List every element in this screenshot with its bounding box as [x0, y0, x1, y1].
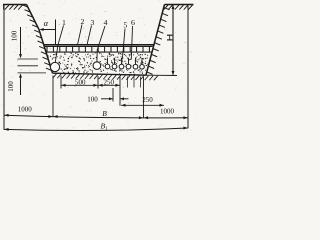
- svg-text:1000: 1000: [18, 105, 33, 113]
- svg-text:250: 250: [103, 78, 114, 86]
- masonry cap layer: [44, 45, 154, 52]
- extension line left toe: [52, 76, 54, 117]
- extension line x61: [60, 76, 62, 89]
- extension line x98: [97, 76, 99, 89]
- dimensions 1000 B 1000: [4, 105, 188, 119]
- stipple fill of bedding layer: [47, 52, 148, 75]
- dimension 250 right: [121, 96, 164, 107]
- pipe circles in bedding: [50, 62, 144, 72]
- ground surface left: [3, 5, 27, 10]
- label 3 with leader: [87, 18, 94, 45]
- hatch ticks under trench bottom: [53, 74, 158, 81]
- dimension 100 lower left: [7, 73, 22, 95]
- right slope line: [146, 5, 165, 75]
- trench bottom line: [53, 73, 178, 75]
- hatch ticks under right ground: [164, 5, 193, 10]
- dimensions 500 and 250 under bedding: [61, 78, 120, 87]
- svg-text:250: 250: [142, 96, 153, 104]
- trench cross-section figure: [0, 0, 196, 136]
- svg-text:4: 4: [104, 18, 108, 27]
- svg-text:500: 500: [75, 78, 86, 86]
- svg-text:100: 100: [87, 96, 98, 104]
- svg-text:α: α: [44, 18, 49, 28]
- alpha slope-angle dimension: [40, 18, 56, 45]
- ground surface right: [165, 4, 194, 6]
- left slope line: [27, 5, 53, 74]
- dimension 100 pipe spacing: [87, 96, 128, 104]
- svg-text:5: 5: [123, 20, 127, 29]
- level extension lines left: [18, 59, 47, 73]
- right extension line: [187, 5, 189, 129]
- label 4 with leader: [97, 18, 108, 61]
- label 6 with leader: [131, 18, 135, 59]
- dimension B1 overall width: [4, 122, 188, 133]
- svg-text:100: 100: [7, 81, 15, 92]
- label 5 with leader: [122, 20, 127, 59]
- dimension 100 upper left: [10, 27, 22, 58]
- dimension H trench depth: [167, 5, 175, 75]
- hatch ticks on right slope: [147, 7, 170, 74]
- label 2 with leader: [78, 17, 85, 45]
- svg-text:B: B: [102, 109, 107, 118]
- hatch ticks under left ground: [5, 5, 23, 10]
- label 1 with leader: [55, 18, 66, 62]
- svg-text:1000: 1000: [160, 108, 175, 116]
- short extension stubs under pipe cluster: [128, 77, 141, 88]
- pipe stems: [108, 58, 143, 65]
- svg-text:2: 2: [81, 17, 85, 26]
- svg-text:6: 6: [131, 18, 135, 27]
- svg-text:100: 100: [10, 30, 18, 41]
- svg-text:3: 3: [90, 18, 94, 27]
- svg-text:1: 1: [62, 18, 66, 27]
- extension line x120: [119, 77, 121, 106]
- paper noise speckle: [0, 0, 196, 136]
- hatch ticks on left slope: [22, 5, 52, 71]
- extension line right toe: [143, 77, 145, 118]
- left extension line: [3, 5, 5, 130]
- extension line x113: [112, 88, 114, 102]
